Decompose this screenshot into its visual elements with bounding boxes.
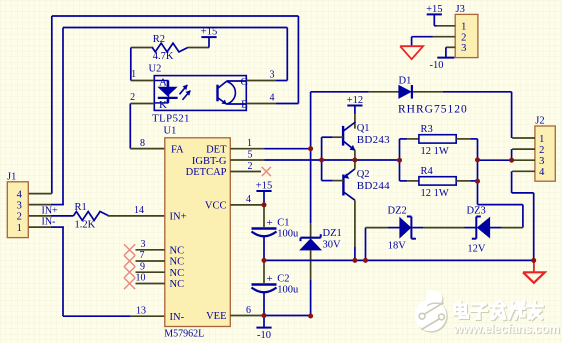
- svg-text:7: 7: [140, 250, 145, 261]
- svg-text:10: 10: [136, 273, 146, 284]
- svg-text:2: 2: [461, 33, 466, 44]
- svg-text:D1: D1: [399, 76, 412, 87]
- svg-text:R4: R4: [421, 166, 434, 177]
- svg-text:4.7K: 4.7K: [153, 51, 174, 62]
- svg-text:C2: C2: [277, 274, 289, 285]
- svg-text:1: 1: [131, 69, 136, 80]
- svg-text:C1: C1: [277, 218, 289, 229]
- svg-text:-10: -10: [430, 60, 444, 71]
- svg-text:9: 9: [140, 261, 145, 272]
- svg-text:+15: +15: [256, 181, 272, 192]
- svg-text:4: 4: [270, 93, 275, 104]
- svg-text:6: 6: [246, 305, 251, 316]
- svg-text:BD243: BD243: [357, 134, 390, 146]
- svg-text:FA: FA: [171, 144, 184, 155]
- svg-text:NC: NC: [170, 257, 185, 268]
- svg-text:1.2K: 1.2K: [75, 219, 96, 230]
- svg-text:R2: R2: [153, 34, 165, 45]
- svg-text:3: 3: [17, 200, 22, 211]
- svg-text:+15: +15: [201, 27, 217, 38]
- svg-text:1: 1: [247, 138, 252, 149]
- svg-text:2: 2: [17, 212, 22, 223]
- svg-text:14: 14: [134, 205, 144, 216]
- svg-text:-10: -10: [257, 330, 271, 341]
- svg-text:12V: 12V: [467, 244, 486, 255]
- svg-text:M57962L: M57962L: [164, 328, 204, 339]
- svg-text:Q2: Q2: [357, 169, 370, 180]
- svg-text:2: 2: [130, 92, 135, 103]
- svg-text:3: 3: [141, 239, 146, 250]
- svg-text:30V: 30V: [323, 240, 342, 251]
- svg-text:1: 1: [461, 22, 466, 33]
- svg-text:5: 5: [248, 149, 253, 160]
- svg-text:BD244: BD244: [357, 180, 390, 192]
- svg-text:NC: NC: [170, 245, 185, 256]
- svg-text:J3: J3: [456, 4, 465, 15]
- svg-text:NC: NC: [170, 279, 185, 290]
- svg-text:100u: 100u: [277, 228, 299, 239]
- svg-text:+12: +12: [347, 95, 363, 106]
- svg-text:2: 2: [539, 145, 544, 156]
- svg-text:E: E: [241, 98, 248, 110]
- svg-text:K: K: [159, 99, 167, 111]
- svg-text:A: A: [159, 77, 167, 89]
- svg-text:J1: J1: [7, 172, 16, 183]
- svg-text:U2: U2: [149, 64, 162, 75]
- svg-text:2: 2: [248, 161, 253, 172]
- svg-text:IN-: IN-: [42, 217, 56, 228]
- svg-text:DET: DET: [206, 144, 227, 155]
- svg-text:R3: R3: [421, 124, 433, 135]
- svg-text:+: +: [267, 273, 273, 285]
- svg-text:J2: J2: [535, 115, 544, 126]
- svg-text:18V: 18V: [388, 241, 407, 252]
- svg-text:RHRG75120: RHRG75120: [398, 104, 468, 116]
- svg-text:IGBT-G: IGBT-G: [192, 156, 227, 167]
- svg-text:VEE: VEE: [206, 311, 226, 322]
- svg-text:DZ2: DZ2: [388, 206, 407, 217]
- svg-text:DZ1: DZ1: [323, 228, 342, 239]
- svg-text:+15: +15: [426, 4, 442, 15]
- svg-text:NC: NC: [170, 268, 185, 279]
- svg-text:4: 4: [17, 189, 23, 200]
- svg-text:1: 1: [17, 223, 22, 234]
- svg-text:IN+: IN+: [42, 205, 59, 216]
- svg-text:4: 4: [246, 194, 251, 205]
- svg-text:IN-: IN-: [170, 312, 185, 323]
- svg-text:TLP521: TLP521: [152, 113, 190, 125]
- svg-text:DETCAP: DETCAP: [186, 167, 227, 178]
- svg-text:12 1W: 12 1W: [421, 188, 449, 199]
- svg-text:100u: 100u: [277, 284, 299, 295]
- svg-text:4: 4: [539, 167, 545, 178]
- svg-text:C: C: [241, 76, 248, 88]
- svg-text:8: 8: [140, 138, 145, 149]
- svg-text:+: +: [267, 217, 273, 229]
- svg-text:3: 3: [461, 43, 466, 54]
- svg-text:U1: U1: [164, 126, 177, 137]
- svg-text:www.elecfans.com: www.elecfans.com: [453, 322, 560, 336]
- svg-text:3: 3: [539, 156, 544, 167]
- svg-text:3: 3: [270, 70, 275, 81]
- svg-text:13: 13: [136, 306, 146, 317]
- svg-text:12 1W: 12 1W: [421, 146, 449, 157]
- svg-text:IN+: IN+: [170, 212, 187, 223]
- svg-text:R1: R1: [75, 202, 87, 213]
- svg-text:1: 1: [539, 134, 544, 145]
- svg-text:DZ3: DZ3: [467, 206, 486, 217]
- svg-text:Q1: Q1: [357, 123, 370, 134]
- svg-text:VCC: VCC: [205, 201, 227, 212]
